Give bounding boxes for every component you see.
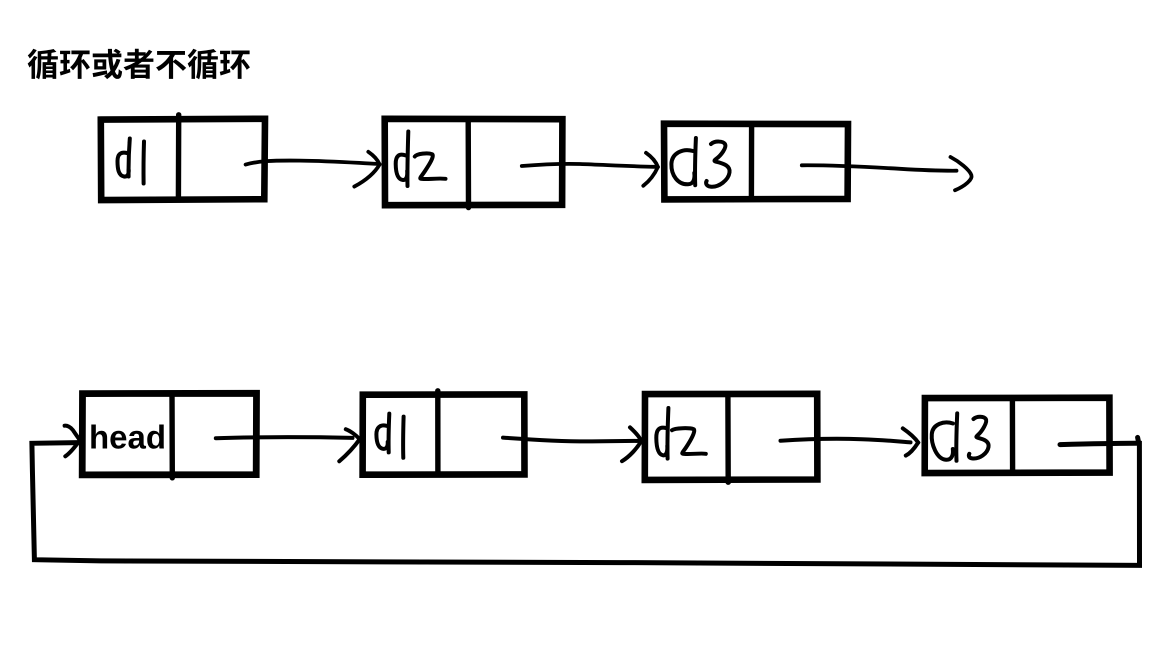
wire arrow A3 (d3 -> right, top row) — [802, 157, 972, 190]
box B4 (bottom row, node d1) — [363, 394, 525, 474]
divider of box B3 — [749, 124, 755, 199]
box B3 (top row, node d3) — [664, 124, 848, 200]
box B5 (bottom row, node d2) — [645, 394, 818, 480]
divider of box B4 — [435, 391, 441, 475]
wire arrow A6 (d2 -> d3, bottom row) — [781, 428, 919, 455]
label d3 (top row) — [671, 138, 729, 187]
svg-text:head: head — [89, 419, 166, 456]
title 循环或者不循环 — [28, 49, 250, 80]
label d2 (top row) — [396, 132, 446, 187]
divider of box B5 — [725, 394, 731, 482]
box B6 (bottom row, node d3) — [925, 398, 1110, 473]
divider of box HEAD — [169, 394, 175, 478]
wire arrow A2 (d2 -> d3, top row) — [522, 153, 658, 186]
box B2 (top row, node d2) — [385, 119, 563, 205]
label d1 (top row) — [118, 139, 145, 184]
label d2 (bottom row) — [656, 408, 706, 459]
wire arrow A5 (d1 -> d2, bottom row) — [503, 427, 641, 461]
divider of box B1 — [176, 115, 182, 200]
label d3 (bottom row) — [932, 413, 989, 460]
wire arrow A4 (head -> d1, bottom row) — [216, 429, 360, 461]
box HEAD (bottom row) — [82, 393, 256, 475]
arrowhead into head box — [65, 426, 80, 457]
wire arrow A1 (d1 -> d2, top row) — [246, 152, 380, 187]
divider of box B6 — [1010, 398, 1016, 473]
divider of box B2 — [466, 119, 472, 207]
label d1 (bottom row) — [376, 414, 403, 458]
wire loop (d3 tail -> bottom -> back up into head) — [32, 437, 1140, 565]
box B1 (top row, node d1) — [101, 119, 265, 200]
